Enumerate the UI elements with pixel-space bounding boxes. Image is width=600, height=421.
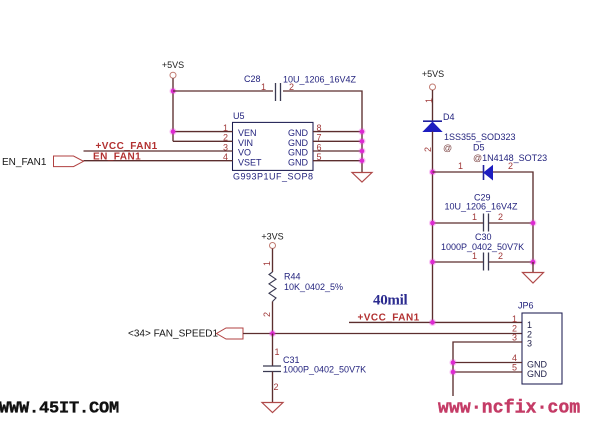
svg-text:1: 1 — [512, 314, 517, 324]
svg-text:+3VS: +3VS — [261, 232, 283, 242]
svg-text:GND: GND — [288, 128, 309, 138]
power symbol +5VS (right) — [422, 69, 444, 90]
svg-text:1: 1 — [527, 320, 532, 330]
svg-text:5: 5 — [512, 363, 517, 373]
wire: C30 row — [433, 261, 534, 263]
wire: left +5VS vertical rail — [172, 78, 174, 141]
node: D4/D5/C29/C30 left rail junction — [429, 168, 436, 175]
wire: JP6 pin3 L-shaped stub — [453, 342, 522, 396]
svg-text:GND: GND — [527, 360, 548, 370]
svg-text:4: 4 — [512, 353, 517, 363]
capacitor C29 — [445, 193, 519, 232]
wire: +VCC_FAN1 to JP6 pin1 — [349, 321, 522, 323]
wire: +3VS to R44 — [272, 249, 274, 273]
svg-text:10K_0402_5%: 10K_0402_5% — [284, 282, 343, 292]
node: C30 right — [529, 258, 536, 265]
resistor R44 10K_0402_5% — [269, 272, 343, 302]
svg-text:2: 2 — [508, 161, 513, 171]
node: C29 right — [529, 219, 536, 226]
off-page connector EN_FAN1 — [54, 156, 84, 167]
IC U5 G993P1UF_SOP8 — [233, 111, 314, 181]
svg-text:+5VS: +5VS — [162, 60, 184, 70]
wire: node to D5 cathode — [433, 171, 484, 173]
wire: U5 pin3 (VO) net +VCC_FAN1 stub — [84, 150, 233, 152]
svg-text:40mil: 40mil — [373, 293, 407, 309]
wire: JP6 pin5 — [453, 371, 522, 373]
capacitor C31 — [263, 334, 366, 375]
power symbol +3VS — [261, 232, 283, 249]
svg-text:2: 2 — [262, 312, 272, 317]
wire: U5 pin7 — [313, 140, 362, 142]
wire: +5VS to D4 cathode — [432, 90, 434, 121]
node: pin1 / +5VS rail junction — [169, 128, 176, 135]
svg-text:GND: GND — [288, 148, 309, 158]
wire: U5 pin1 (VEN) — [173, 131, 233, 133]
svg-text:U5: U5 — [233, 111, 245, 121]
svg-text:2: 2 — [423, 147, 433, 152]
svg-text:R44: R44 — [284, 272, 301, 282]
svg-text:1: 1 — [458, 161, 463, 171]
svg-text:D5: D5 — [473, 142, 485, 152]
wire: C28 right segment + right vertical down to U5 GND pins — [283, 91, 362, 172]
svg-text:3: 3 — [512, 333, 517, 343]
wire: U5 pin8 — [313, 131, 362, 133]
wire: right rail stub to ground — [532, 262, 534, 272]
svg-text:VEN: VEN — [238, 128, 257, 138]
svg-text:VSET: VSET — [238, 157, 262, 167]
svg-text:VO: VO — [238, 148, 251, 158]
svg-text:EN_FAN1: EN_FAN1 — [2, 157, 47, 168]
wire: R44 to FAN_SPEED1 node — [272, 302, 274, 334]
node: GND rail pin7 — [358, 138, 365, 145]
power symbol +5VS (left) — [162, 60, 184, 78]
wire: U5 pin6 — [313, 150, 362, 152]
wire: C29 row — [433, 222, 534, 224]
ground (right rail, below C30) — [523, 273, 544, 284]
svg-text:1: 1 — [424, 98, 434, 103]
svg-text:+5VS: +5VS — [422, 69, 444, 79]
svg-text:1: 1 — [472, 212, 477, 222]
wire: D5 anode to right rail, down to C29/C30/GND — [493, 172, 533, 262]
svg-text:1: 1 — [262, 261, 272, 266]
svg-text:GND: GND — [288, 157, 309, 167]
svg-text:@: @ — [443, 143, 452, 153]
off-page connector FAN_SPEED1 — [217, 328, 244, 339]
svg-text:10U_1206_16V4Z: 10U_1206_16V4Z — [445, 201, 519, 211]
svg-text:3: 3 — [527, 339, 532, 349]
node: +VCC_FAN1 / D4 rail junction — [429, 319, 436, 326]
wire: U5 pin2 (VIN) — [173, 140, 233, 142]
node: GND rail pin5 — [358, 157, 365, 164]
svg-text:www·ncfix·com: www·ncfix·com — [438, 398, 580, 416]
svg-text:1000P_0402_50V7K: 1000P_0402_50V7K — [441, 242, 524, 252]
svg-text:GND: GND — [527, 369, 548, 379]
node: pin5 branch — [449, 368, 456, 375]
svg-text:1SS355_SOD323: 1SS355_SOD323 — [444, 132, 516, 142]
wire: U5 pin4 (VSET) net EN_FAN1 — [84, 160, 233, 162]
node: +5VS / C28 junction — [169, 87, 176, 94]
svg-text:JP6: JP6 — [518, 301, 534, 311]
capacitor C28 — [244, 74, 357, 101]
svg-text:1000P_0402_50V7K: 1000P_0402_50V7K — [283, 365, 366, 375]
svg-text:D4: D4 — [443, 112, 455, 122]
svg-text:2: 2 — [498, 212, 503, 222]
svg-text:WWW.45IT.COM: WWW.45IT.COM — [0, 400, 119, 417]
ground (below C31) — [262, 403, 283, 413]
node: GND rail pin6 — [358, 147, 365, 154]
svg-text:C30: C30 — [475, 232, 492, 242]
svg-text:C28: C28 — [244, 74, 261, 84]
svg-text:10U_1206_16V4Z: 10U_1206_16V4Z — [283, 75, 357, 85]
wire: FAN_SPEED1 to JP6 pin2 — [243, 333, 522, 335]
wire: C31 to ground — [272, 372, 274, 403]
wire: D4 anode down to node — [432, 132, 434, 323]
wire: JP6 pin4 — [453, 362, 522, 364]
ground (below U5 GND rail) — [352, 173, 372, 183]
wire: U5 pin5 — [313, 160, 362, 162]
svg-text:EN_FAN1: EN_FAN1 — [93, 151, 141, 162]
svg-text:2: 2 — [498, 251, 503, 261]
diode D4 1SS355_SOD323 — [423, 112, 516, 142]
svg-text:1: 1 — [472, 251, 477, 261]
node: GND rail pin8 — [358, 128, 365, 135]
node: FAN_SPEED1 / R44 / C31 junction — [269, 330, 276, 337]
node: C30 left — [429, 258, 436, 265]
node: C29 left — [429, 219, 436, 226]
svg-text:C31: C31 — [283, 355, 300, 365]
diode D5 1N4148_SOT23 — [473, 142, 547, 180]
svg-text:1: 1 — [275, 347, 280, 357]
wire: C28 left segment — [173, 90, 273, 92]
svg-text:VIN: VIN — [238, 138, 253, 148]
svg-text:<34> FAN_SPEED1: <34> FAN_SPEED1 — [128, 329, 218, 340]
svg-text:2: 2 — [274, 382, 279, 392]
svg-text:GND: GND — [288, 138, 309, 148]
node: pin4 branch — [449, 359, 456, 366]
svg-text:G993P1UF_SOP8: G993P1UF_SOP8 — [233, 171, 314, 181]
svg-text:1: 1 — [261, 82, 266, 92]
capacitor C30 — [441, 232, 524, 271]
connector JP6 — [518, 301, 562, 385]
svg-text:+VCC_FAN1: +VCC_FAN1 — [96, 141, 158, 152]
